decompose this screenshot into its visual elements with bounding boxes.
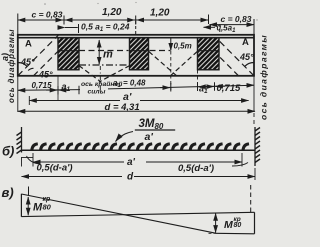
tick at c end <box>63 16 65 25</box>
section a) beam rectangle <box>18 35 254 76</box>
45 arc 2 <box>28 68 33 70</box>
svg-text:ось диафрагмы: ось диафрагмы <box>259 34 269 120</box>
split line block 2 <box>130 50 149 52</box>
svg-text:3M80: 3M80 <box>139 118 164 131</box>
baseline <box>21 212 254 216</box>
svg-text:1,20: 1,20 <box>150 8 170 19</box>
45 deg dashed line gap0 inner <box>34 51 59 76</box>
svg-text:кр: кр <box>43 196 52 203</box>
svg-text:0,5(d-a'): 0,5(d-a') <box>37 163 73 174</box>
left edge <box>20 194 22 217</box>
svg-text:d = 4,31: d = 4,31 <box>105 102 140 113</box>
svg-text:силы: силы <box>88 89 106 96</box>
svg-text:M: M <box>33 202 43 214</box>
svg-text:45°: 45° <box>239 52 254 62</box>
svg-text:A: A <box>242 37 249 48</box>
svg-text:45°: 45° <box>38 70 53 80</box>
svg-text:кр: кр <box>234 216 241 223</box>
svg-text:a1: a1 <box>199 84 208 96</box>
dashed vertical from b) <box>250 185 252 213</box>
b) dim row 1 <box>21 157 23 167</box>
0,5a1 left dim <box>65 27 78 29</box>
dashed half-m line gap2 <box>150 50 171 52</box>
inner top line <box>18 37 254 39</box>
d dim row <box>22 176 123 178</box>
svg-text:m: m <box>103 49 113 61</box>
svg-text:0,5m: 0,5m <box>174 42 192 51</box>
section letters <box>0 53 14 200</box>
dash-dot m line gap1 <box>79 64 129 66</box>
svg-text:0,715: 0,715 <box>217 83 241 94</box>
45 arc right corner <box>245 63 254 67</box>
gap1 X diagonals <box>79 66 101 83</box>
leader right <box>232 163 248 167</box>
beam line <box>22 149 256 151</box>
vertical axis texts <box>7 29 269 120</box>
fraction bar <box>135 129 175 131</box>
top dim line c/1,20/1,20 <box>18 19 208 21</box>
leader arrow to load <box>116 132 134 142</box>
dashed extension at axis of extreme force <box>99 66 101 90</box>
right M arrow <box>215 213 217 232</box>
leader from 0,5(d-a') left <box>27 156 41 164</box>
svg-text:80: 80 <box>234 222 242 229</box>
svg-text:в): в) <box>2 185 14 200</box>
wheel block 1 <box>58 38 79 70</box>
45 arc left corner <box>18 63 27 67</box>
svg-text:A: A <box>25 39 32 50</box>
bottom dim row 1 <box>18 89 80 92</box>
extension verticals <box>17 76 19 112</box>
right box <box>254 212 256 234</box>
dashed half-m line gap1 <box>79 50 129 52</box>
svg-text:1,20: 1,20 <box>102 7 122 18</box>
left support <box>21 127 23 153</box>
0,5a1 right dim <box>204 26 216 28</box>
45 deg dashed line gap0 outer <box>18 35 59 76</box>
svg-text:0,715: 0,715 <box>32 81 53 90</box>
distributed load arrowheads row <box>30 142 249 149</box>
svg-text:c = 0,83: c = 0,83 <box>221 14 252 24</box>
svg-text:M: M <box>224 219 233 231</box>
svg-text:c = 0,83: c = 0,83 <box>32 10 63 20</box>
left M arrow <box>27 197 29 215</box>
a' dim row <box>29 100 120 102</box>
gap2 X diagonals <box>149 52 178 78</box>
right c dim line <box>210 24 255 26</box>
svg-text:б): б) <box>2 144 14 159</box>
svg-text:45°: 45° <box>20 57 35 67</box>
wheel block 3 <box>198 38 220 70</box>
m arrow <box>98 40 100 64</box>
svg-text:ось диафрагмы: ось диафрагмы <box>7 29 16 103</box>
45 deg dashed line gap3 outer <box>219 41 254 76</box>
45 deg dashed line gap3 inner <box>219 56 239 76</box>
tick above left corner <box>28 187 30 196</box>
split line block 1 <box>58 50 79 52</box>
d dim row <box>18 110 255 112</box>
scan specks (decorative separator) <box>44 2 257 21</box>
right support <box>254 127 256 166</box>
dashed drop at 135.7 <box>135 21 137 34</box>
svg-text:a': a' <box>127 157 136 168</box>
svg-text:a1: a1 <box>62 82 71 94</box>
svg-text:80: 80 <box>43 203 52 212</box>
svg-text:0,5 a1 = 0,24: 0,5 a1 = 0,24 <box>81 22 130 34</box>
wheel block 2 <box>130 38 149 70</box>
svg-text:a': a' <box>145 131 154 143</box>
split line block 3 <box>198 50 220 52</box>
arrows at 135.7 <box>122 19 135 21</box>
tick mid 1,20 <box>135 16 137 25</box>
svg-text:0,5(d-a'): 0,5(d-a') <box>178 163 214 174</box>
0,5m tick <box>170 38 172 51</box>
slant moment line <box>21 194 215 233</box>
svg-text:d: d <box>127 172 134 183</box>
arrows at 64 <box>50 19 63 21</box>
